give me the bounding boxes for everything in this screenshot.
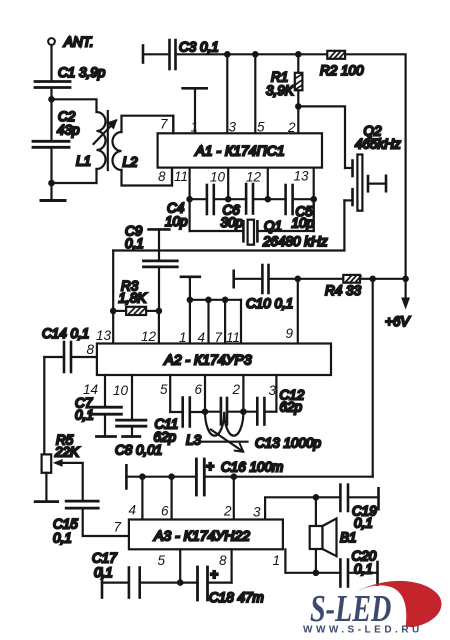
svg-text:10p: 10p (292, 216, 315, 231)
svg-text:2: 2 (232, 382, 241, 397)
resistor R2 100 (320, 51, 364, 78)
svg-text:1,8K: 1,8K (119, 291, 148, 306)
A3 pin labels bottom (158, 553, 281, 568)
svg-text:5: 5 (257, 120, 265, 135)
node A2 pin7 bus (222, 297, 229, 304)
wire A2 pin2 riser (242, 375, 244, 412)
capacitor C1 3,9p (35, 65, 106, 99)
svg-text:0,1: 0,1 (125, 236, 144, 251)
node speaker bottom (313, 570, 320, 577)
node junction below C1 (48, 96, 55, 103)
IC A3 K174UN22 box (129, 520, 283, 550)
svg-text:1: 1 (179, 330, 187, 345)
svg-text:43p: 43p (57, 123, 80, 138)
svg-text:L3: L3 (186, 433, 202, 448)
svg-text:L1: L1 (76, 154, 91, 169)
wire A3 pin2 riser (233, 477, 235, 520)
IC A1 K174PS1 box (158, 133, 322, 167)
wire A1 pin10 riser (227, 168, 229, 200)
capacitor C6 30p (221, 184, 268, 230)
svg-text:7: 7 (160, 117, 168, 132)
capacitor C15 0,1 (53, 501, 129, 545)
svg-text:0,1: 0,1 (53, 531, 72, 546)
svg-text:R2 100: R2 100 (320, 63, 364, 78)
wire A3 pin6 riser (171, 477, 173, 520)
svg-text:B1: B1 (340, 530, 357, 545)
svg-text:8: 8 (219, 553, 227, 568)
svg-text:10p: 10p (165, 214, 188, 229)
capacitor C14 0,1 (42, 326, 97, 372)
wire R2 to right rail down to R4 (345, 54, 406, 279)
node pin5 bottom (177, 579, 184, 586)
wire R1 node to Q2 top (298, 106, 345, 168)
node R1 top (295, 51, 302, 58)
piezo filter Q2 465kHz (344, 124, 401, 251)
capacitor C7 0,1 with end bar (75, 375, 121, 437)
A2 pin labels bottom (83, 382, 277, 398)
node pin5 top (252, 51, 259, 58)
capacitor C5 10p (268, 185, 315, 231)
wire +6V branch down to C16 bus (372, 279, 374, 477)
capacitor C10 0,1 with stub terminal (234, 265, 298, 311)
node pin2 tank (240, 408, 247, 415)
wire A1 pin5 riser (254, 54, 256, 133)
svg-text:5: 5 (160, 382, 168, 397)
A2 pin labels top (96, 326, 294, 345)
wire A3 pin3 riser to speaker (265, 497, 316, 519)
loudspeaker B1 (310, 497, 357, 573)
potentiometer R5 22K (35, 433, 82, 502)
inductor L3 variable (186, 412, 248, 452)
capacitor C17 0,1 with stub terminal (92, 551, 180, 598)
svg-text:А3 - К174УН22: А3 - К174УН22 (153, 528, 250, 544)
svg-text:C17: C17 (92, 551, 117, 566)
svg-text:62p: 62p (280, 400, 303, 415)
node R3 right (156, 308, 163, 315)
svg-text:4: 4 (198, 330, 206, 345)
svg-text:8: 8 (158, 169, 166, 184)
wire A3 pin8 riser (231, 549, 233, 582)
wire A2 pin9 riser (297, 279, 299, 344)
node R4 right (369, 276, 376, 283)
wire A2 pin6 riser (204, 375, 206, 412)
svg-text:11: 11 (226, 330, 240, 345)
wire A2 pin3 riser (275, 375, 277, 412)
resistor R3 1,8K (119, 279, 148, 316)
wire R3 right lead (146, 310, 159, 312)
wire A1 pin13 riser (313, 168, 315, 231)
S-LED logo swoosh (356, 581, 442, 627)
A1 pin1 stub terminal (183, 88, 207, 133)
svg-text:0,1: 0,1 (94, 565, 113, 580)
svg-text:C8 0,01: C8 0,01 (115, 443, 162, 458)
capacitor C16 100m electrolytic (196, 459, 283, 495)
svg-text:C3 0,1: C3 0,1 (179, 40, 219, 55)
wire R4 to +6V rail node (373, 278, 406, 280)
capacitor C8 0,01 with end bar (115, 375, 162, 458)
svg-text:+: + (206, 459, 214, 474)
node A3 pin2 bus (231, 473, 238, 480)
A2 pins 1-4-7-11 bus with stub terminal (181, 277, 241, 344)
wire A3 pin1 riser to speaker bottom (285, 549, 316, 573)
svg-text:10: 10 (210, 170, 226, 185)
tuning core line between L1 and L2 (107, 111, 109, 170)
crystal Q1 26480 kHz (190, 199, 328, 249)
svg-text:3: 3 (253, 505, 261, 520)
svg-text:C16 100m: C16 100m (221, 460, 283, 475)
svg-text:WWW.S-LED.RU: WWW.S-LED.RU (303, 625, 423, 636)
svg-text:62p: 62p (154, 430, 177, 445)
svg-text:1: 1 (273, 553, 281, 568)
antenna terminal ANT (48, 35, 93, 82)
svg-text:C14 0,1: C14 0,1 (42, 326, 89, 341)
node A3 pin6 bus (168, 473, 175, 480)
svg-text:12: 12 (246, 170, 262, 185)
wire from C1 node to L1 top (52, 99, 97, 112)
svg-text:3: 3 (229, 120, 237, 135)
svg-text:C15: C15 (53, 517, 78, 532)
node +6V rail (402, 276, 409, 283)
node pin11 at C4 bus (186, 196, 193, 203)
A3 pin labels top (129, 503, 262, 520)
node pin6 tank (202, 408, 209, 415)
svg-text:2: 2 (223, 504, 232, 519)
svg-text:L2: L2 (123, 155, 139, 170)
node pin13 at C4 bus (310, 196, 317, 203)
node pin3 top (224, 51, 231, 58)
inductor L2 (113, 116, 174, 186)
capacitor C4 10p (165, 185, 228, 229)
IC A2 K174UR3 box (97, 344, 331, 376)
wire A1 pin8 stub to L2 bottom (171, 168, 173, 186)
wire A3 pin5 riser (179, 549, 181, 582)
svg-text:C10 0,1: C10 0,1 (246, 296, 293, 311)
svg-text:465kHz: 465kHz (355, 137, 401, 152)
svg-text:11: 11 (174, 169, 188, 184)
tuning arrow through L1 L2 (94, 119, 118, 144)
node pin10 at C4 bus (225, 196, 232, 203)
node A2 pin1 bus (187, 297, 194, 304)
svg-text:5: 5 (158, 553, 166, 568)
A1 pin labels top (160, 117, 296, 136)
svg-text:+6V: +6V (385, 314, 411, 329)
node A3 pin4 bus (139, 473, 146, 480)
resistor R4 33 (298, 275, 373, 298)
svg-text:22K: 22K (54, 445, 80, 460)
capacitor C20 0,1 with stub terminal (316, 549, 378, 587)
svg-text:13: 13 (294, 169, 310, 184)
svg-text:1: 1 (191, 120, 199, 135)
svg-text:ANT.: ANT. (63, 35, 94, 50)
svg-text:Q1: Q1 (264, 219, 282, 234)
svg-text:А1 - К174ПС1: А1 - К174ПС1 (194, 143, 284, 159)
capacitor C2 43p (33, 99, 80, 183)
svg-text:C18 47m: C18 47m (209, 590, 264, 605)
wire A3 pin4 riser (141, 477, 143, 520)
inductor L1 (52, 112, 106, 183)
node A2 pin4 bus (205, 297, 212, 304)
capacitor C13 1000p (205, 398, 322, 451)
svg-text:2: 2 (287, 120, 296, 135)
wire A1 pin7 riser from L2 (172, 116, 174, 134)
svg-text:3,9K: 3,9K (266, 83, 295, 98)
svg-text:12: 12 (141, 329, 157, 344)
wire A2 pin5 riser (170, 375, 183, 412)
svg-text:+: + (210, 567, 218, 582)
node pin12 at C4 bus (265, 196, 272, 203)
svg-text:13: 13 (96, 328, 112, 343)
svg-text:26480 kHz: 26480 kHz (262, 234, 328, 249)
node R3 left (110, 308, 117, 315)
wire A2 pin13 riser (112, 251, 114, 344)
capacitor C19 0,1 with stub terminal (316, 485, 379, 531)
wire C14 down to R5 top (43, 357, 45, 454)
resistor R1 3,9K (266, 54, 302, 106)
svg-text:10: 10 (113, 383, 129, 398)
svg-text:6: 6 (161, 504, 169, 519)
node speaker top (313, 494, 320, 501)
ground bar below C2 (41, 183, 65, 201)
node junction at L1 bottom wire (48, 180, 55, 187)
svg-text:А2 - К174УР3: А2 - К174УР3 (163, 352, 251, 368)
svg-text:4: 4 (129, 503, 137, 518)
capacitor C3 0,1 with input stub (143, 40, 227, 70)
node R1 bottom (295, 103, 302, 110)
svg-text:30p: 30p (221, 215, 244, 230)
wire A1 pin2 riser (297, 106, 299, 133)
+6V supply arrow (385, 279, 411, 329)
C16 supply bus with stub terminal (126, 465, 196, 488)
svg-text:6: 6 (195, 382, 203, 397)
svg-text:R4 33: R4 33 (325, 283, 362, 298)
svg-text:7: 7 (114, 520, 122, 535)
wire A2 pin12 riser (158, 311, 160, 344)
capacitor C11 62p (154, 398, 206, 445)
A1 pin labels bottom (158, 169, 309, 185)
capacitor C9 0,1 with stub terminal (125, 224, 177, 311)
node A2 pin9 top (295, 276, 302, 283)
wire A1 pin11 riser (189, 168, 191, 231)
svg-text:C1 3,9p: C1 3,9p (58, 65, 106, 80)
wire A1 pin3 riser (226, 54, 228, 133)
capacitor C12 62p (243, 388, 304, 425)
wire C16 bus to +6V branch (234, 476, 373, 478)
wire IF net from Q2 bottom to pin13/pin12 risers (113, 249, 344, 251)
svg-text:7: 7 (215, 330, 223, 345)
svg-text:C13 1000p: C13 1000p (255, 436, 322, 451)
wire R3 left lead (113, 310, 126, 312)
svg-text:0,1: 0,1 (75, 408, 94, 423)
svg-text:0,1: 0,1 (354, 516, 373, 531)
capacitor C18 47m electrolytic (180, 567, 264, 605)
wire A1 pin12 riser (267, 168, 269, 200)
svg-text:0,1: 0,1 (354, 562, 373, 577)
svg-text:8: 8 (87, 342, 95, 357)
svg-text:9: 9 (286, 326, 294, 341)
wire top bus from C3 to R2 (227, 53, 327, 55)
